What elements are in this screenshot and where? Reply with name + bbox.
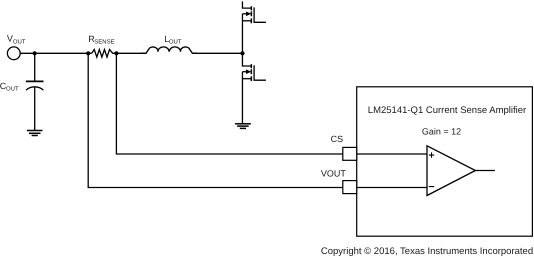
svg-text:SENSE: SENSE xyxy=(94,39,114,46)
svg-text:OUT: OUT xyxy=(6,85,19,92)
svg-text:OUT: OUT xyxy=(13,39,26,46)
svg-text:VOUT: VOUT xyxy=(321,169,347,179)
svg-text:CS: CS xyxy=(331,134,344,144)
svg-text:Gain = 12: Gain = 12 xyxy=(422,127,461,137)
svg-text:LM25141-Q1 Current Sense Ampli: LM25141-Q1 Current Sense Amplifier xyxy=(368,105,526,116)
svg-text:Copyright © 2016, Texas Instru: Copyright © 2016, Texas Instruments Inco… xyxy=(321,246,533,257)
svg-text:OUT: OUT xyxy=(169,39,182,46)
